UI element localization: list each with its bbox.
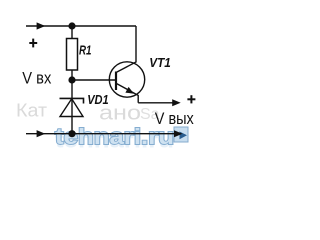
diode VD1 triangle: [60, 99, 83, 117]
svg-text:V вых: V вых: [155, 109, 194, 128]
wire: emitter output: [138, 102, 174, 104]
arrow: top input current direction: [37, 22, 46, 29]
node A: top junction: [68, 22, 75, 29]
node C: bottom junction: [68, 130, 75, 137]
transistor VT1 circle: [109, 62, 144, 97]
svg-text:V вх: V вх: [22, 69, 51, 88]
node B: base junction: [68, 76, 75, 83]
resistor R1: [67, 39, 78, 71]
wire: base lead: [72, 79, 116, 81]
wire: collector vertical: [116, 26, 136, 73]
plus: input positive terminal: [29, 39, 37, 48]
transistor VT1 emitter: [116, 83, 138, 103]
plus: output positive terminal: [187, 95, 195, 103]
diode VD1 (zener) cathode bar: [60, 98, 84, 103]
svg-text:VD1: VD1: [87, 92, 109, 107]
transistor VT1 base bar: [115, 72, 117, 91]
svg-text:VT1: VT1: [149, 55, 171, 70]
wire: node B down through VD1 to node C: [71, 80, 73, 134]
svg-text:R1: R1: [79, 42, 92, 57]
wire: R1 to node B: [71, 70, 73, 80]
arrow: output positive: [172, 99, 181, 106]
arrow: emitter: [125, 87, 134, 94]
watermark logo box: [174, 127, 188, 142]
wire: top rail: [26, 25, 136, 27]
svg-text:Кат: Кат: [16, 100, 47, 120]
wire: bottom rail: [26, 133, 176, 135]
wire: junction A down to R1: [71, 26, 73, 39]
watermark tehnari.ru: [55, 124, 174, 153]
watermark gray text line: [16, 100, 160, 124]
arrow: bottom right output: [174, 130, 183, 137]
arrow: bottom left current direction: [37, 130, 46, 137]
